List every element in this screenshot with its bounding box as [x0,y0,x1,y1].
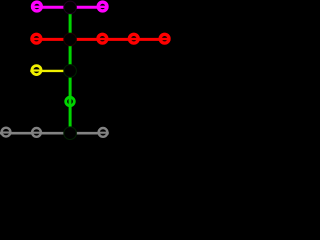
node R3 (red commit circle) [129,34,138,43]
node Y1 (yellow commit circle) [32,66,41,75]
node M1 (magenta commit circle left) [33,2,42,11]
node W2 (gray commit circle) [32,128,41,137]
node M2 (magenta commit circle right) [98,2,107,11]
wire: green vertical branch line [69,7,72,133]
node C (dark junction at yellow merge) [64,65,77,78]
wire: yellow branch line [30,70,70,72]
wire: gray branch line [0,132,109,135]
node W1 (gray commit circle leftmost) [2,128,11,137]
node W3 (gray commit circle right) [99,128,108,137]
node R4 (red commit circle rightmost) [160,34,169,43]
node G1 (green commit circle on vertical line) [66,97,75,106]
node D (dark junction on gray row) [64,127,77,140]
node R2 (red commit circle) [98,34,107,43]
wire: red branch line [30,38,170,41]
wire: magenta branch line [31,6,108,9]
node A (dark junction on magenta row) [64,1,77,14]
node R1 (red commit circle left) [32,34,41,43]
node B (dark junction on red row) [64,33,77,46]
